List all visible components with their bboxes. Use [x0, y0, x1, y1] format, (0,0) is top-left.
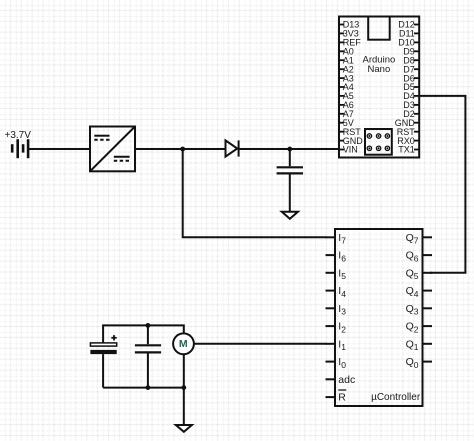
U3 pin adc: [326, 374, 356, 386]
U3 pin I5: [326, 267, 347, 281]
U3 pin Q2: [406, 321, 432, 335]
svg-text:+3.7V: +3.7V: [5, 130, 32, 141]
svg-text:M: M: [179, 338, 188, 350]
U1 pin D6 (right 7): [403, 73, 419, 83]
junction node B: [287, 147, 292, 152]
U1 pin D13 (left 1): [339, 20, 359, 30]
U1 pin D8 (right 5): [403, 55, 419, 65]
U1 pin D10 (right 3): [398, 38, 419, 48]
wire battery to DC-DC converter: [29, 148, 90, 150]
U3 pin I0: [326, 356, 347, 370]
U1 pin A7 (left 11): [339, 109, 354, 119]
junction node D: [146, 385, 151, 390]
wire node E to ground: [183, 388, 185, 425]
junction node A: [180, 147, 185, 152]
svg-text:adc: adc: [338, 374, 355, 386]
wire node A to U3 I7: [183, 149, 327, 237]
capacitor C3: [135, 325, 161, 387]
svg-text:R: R: [338, 392, 346, 404]
junction node E: [181, 385, 186, 390]
U3 pin I6: [326, 250, 347, 264]
U3 pin Q0: [406, 356, 432, 370]
U3 pin Q1: [406, 338, 432, 352]
U1 pin RX0 (right 14): [397, 136, 419, 146]
U1 pin A5 (left 9): [339, 91, 354, 101]
U3 pin R (active-low reset): [326, 390, 347, 404]
battery BT1 +3.7V: [12, 139, 28, 158]
Arduino Nano U1 body: [339, 17, 419, 158]
U1 pin A3 (left 7): [339, 73, 354, 83]
U1 pin REF (left 3): [339, 38, 361, 48]
wire motor bottom: [183, 354, 185, 387]
U3 pin I7: [326, 232, 347, 246]
wire diode to VIN: [239, 148, 339, 150]
U3 pin Q7: [406, 232, 432, 246]
DC-DC converter U2: [90, 127, 135, 172]
svg-text:TX1: TX1: [398, 145, 415, 155]
U1 pin A2 (left 6): [339, 64, 354, 74]
ground GND1: [282, 212, 298, 219]
U3 pin Q5: [406, 267, 432, 281]
U1 pin A0 (left 4): [339, 47, 354, 57]
U3 pin Q3: [406, 303, 432, 317]
diode D1: [226, 140, 239, 156]
U1 pin TX1 (right 15): [398, 145, 419, 155]
U1 pin D12 (right 1): [398, 20, 419, 30]
U1 pin D7 (right 6): [403, 64, 419, 74]
U1 pin VIN (left 15): [339, 145, 358, 155]
U1 pin 3V3 (left 2): [339, 29, 359, 39]
svg-text:µController: µController: [371, 392, 421, 403]
U1 pin D5 (right 8): [403, 82, 419, 92]
U1 pin A1 (left 5): [339, 55, 354, 65]
capacitor C2 (electrolytic, polarized): [90, 335, 116, 388]
U1 pin GND (right 12): [395, 118, 419, 128]
wire converter to diode: [135, 148, 226, 150]
U1 pin GND (left 14): [339, 136, 363, 146]
motor M1: [173, 333, 194, 354]
U3 pin Q6: [406, 250, 432, 264]
wire motor to U3 I1: [194, 343, 327, 345]
U3 pin I1: [326, 338, 347, 352]
U1 pin D2 (right 11): [403, 109, 419, 119]
wire bottom rail of motor group: [103, 387, 184, 389]
U1 pin 5V (left 12): [339, 118, 354, 128]
U1 pin D9 (right 4): [403, 47, 419, 57]
U1 ICSP header: [365, 129, 392, 155]
capacitor C1: [277, 149, 303, 212]
U3 pin I4: [326, 285, 347, 299]
wire U1 D4 to U3 Q5: [419, 96, 465, 273]
U1 name label: [363, 55, 396, 75]
U3 pin I2: [326, 321, 347, 335]
U1 pin D3 (right 10): [403, 100, 419, 110]
U1 pin RST (right 13): [397, 127, 419, 137]
uController U3 body: [335, 229, 423, 406]
svg-text:VIN: VIN: [343, 145, 358, 155]
U1 pin RST (left 13): [339, 127, 361, 137]
U3 pin Q4: [406, 285, 432, 299]
U1 pin D4 (right 9): [403, 91, 419, 101]
U1 pin A6 (left 10): [339, 100, 354, 110]
svg-text:Nano: Nano: [368, 64, 391, 75]
junction node C: [146, 323, 151, 328]
wire top rail of motor group: [103, 325, 184, 342]
ground GND2: [176, 425, 192, 432]
U3 pin I3: [326, 303, 347, 317]
U1 pin D11 (right 2): [399, 29, 419, 39]
U1 pin A4 (left 8): [339, 82, 354, 92]
